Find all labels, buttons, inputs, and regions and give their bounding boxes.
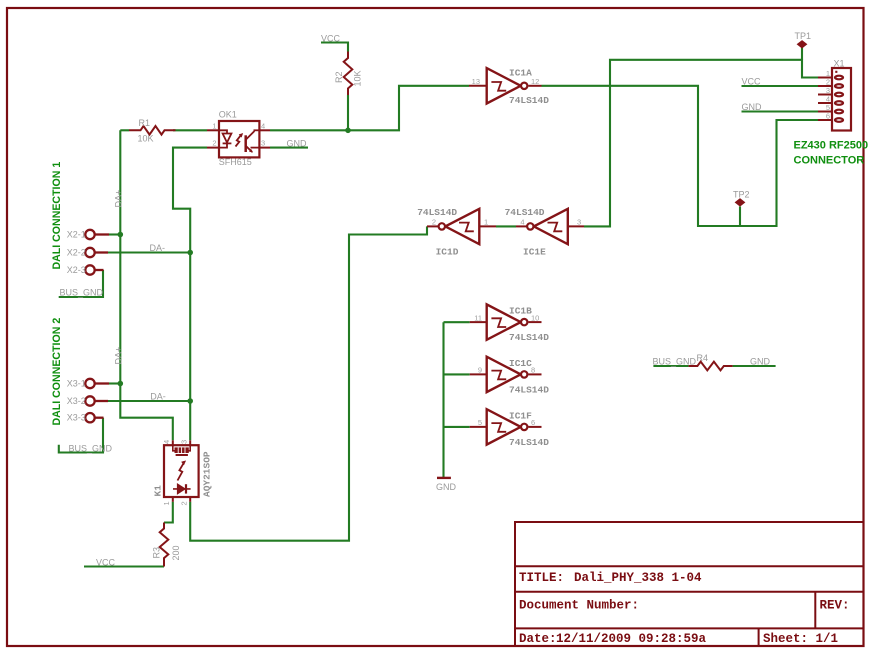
- svg-text:R2: R2: [334, 71, 344, 83]
- svg-text:BUS_GND: BUS_GND: [653, 356, 697, 366]
- wire IC1E output to X1 pin1: [584, 60, 818, 227]
- svg-text:EZ430 RF2500: EZ430 RF2500: [794, 140, 869, 152]
- test point TP2: [735, 199, 744, 206]
- svg-text:DA+: DA+: [114, 347, 124, 365]
- svg-text:8: 8: [531, 366, 535, 375]
- svg-text:X3-1: X3-1: [67, 378, 86, 388]
- svg-text:AQY21SOP: AQY21SOP: [202, 451, 213, 497]
- svg-text:2: 2: [212, 139, 216, 148]
- inverter IC1E 74LS14D (left-pointing): [516, 209, 584, 244]
- connector pin X2-2: [85, 248, 108, 257]
- wire DA+ vertical X2-1 to K1 pin4: [120, 130, 173, 440]
- wire IC1B input: [444, 321, 470, 323]
- connector X1 EZ430: [818, 68, 851, 131]
- wire R2 bottom to node: [347, 95, 349, 130]
- svg-text:4: 4: [162, 440, 171, 444]
- svg-text:3: 3: [577, 218, 581, 227]
- svg-text:74LS14D: 74LS14D: [509, 437, 549, 448]
- wire VCC to X1 pin2: [742, 85, 819, 87]
- svg-text:VCC: VCC: [96, 557, 116, 567]
- svg-text:VCC: VCC: [321, 34, 341, 44]
- wire X2-1 to DA+: [109, 233, 120, 235]
- wire R4 left BUS_GND: [653, 365, 688, 367]
- junction node X3-2 DA-: [187, 398, 193, 404]
- svg-text:10: 10: [531, 313, 539, 322]
- svg-text:74LS14D: 74LS14D: [509, 332, 549, 343]
- wire R3 bottom VCC: [84, 565, 164, 567]
- wire IC1D to IC1E: [496, 225, 516, 227]
- wire OK1 pin2 to DA- vertical: [173, 148, 207, 441]
- svg-text:13: 13: [472, 77, 480, 86]
- svg-text:REV:: REV:: [820, 599, 850, 613]
- wire R1 to OK1 pin1: [173, 129, 207, 131]
- svg-text:X2-3: X2-3: [67, 265, 86, 275]
- inverter IC1B 74LS14D: [470, 304, 542, 339]
- svg-text:74LS14D: 74LS14D: [417, 207, 457, 218]
- junction node X2-1 DA+: [118, 232, 124, 238]
- svg-text:X2-1: X2-1: [67, 229, 86, 239]
- svg-text:X3-2: X3-2: [67, 396, 86, 406]
- svg-text:GND: GND: [287, 138, 308, 148]
- svg-text:12: 12: [531, 77, 539, 86]
- svg-text:74LS14D: 74LS14D: [505, 207, 545, 218]
- wire X2-2 DA-: [108, 251, 190, 253]
- svg-text:10K: 10K: [353, 70, 363, 86]
- wire R1 left corner from DA+: [120, 129, 129, 131]
- wire IC1C input: [444, 373, 470, 375]
- svg-text:11: 11: [474, 313, 482, 322]
- optocoupler OK1 SFH615: [207, 121, 270, 157]
- svg-text:6: 6: [531, 418, 535, 427]
- svg-text:3: 3: [261, 139, 265, 148]
- wire K1 pin2 to IC1D input: [190, 226, 427, 540]
- junction node X2-2 DA-: [187, 250, 193, 256]
- test point TP1: [797, 41, 806, 48]
- svg-text:Dali_PHY_338 1-04: Dali_PHY_338 1-04: [574, 571, 702, 585]
- svg-text:12/11/2009 09:28:59a: 12/11/2009 09:28:59a: [556, 632, 707, 646]
- svg-text:2: 2: [179, 501, 188, 505]
- svg-text:IC1A: IC1A: [509, 68, 532, 79]
- svg-text:9: 9: [478, 366, 482, 375]
- svg-text:200: 200: [171, 545, 181, 560]
- inverter IC1D 74LS14D (left-pointing): [427, 209, 496, 244]
- svg-text:DALI CONNECTION 2: DALI CONNECTION 2: [51, 318, 63, 426]
- connector pin X2-1: [85, 230, 109, 239]
- svg-text:X3-3: X3-3: [67, 413, 86, 423]
- resistor R1: [129, 126, 176, 135]
- svg-text:TITLE:: TITLE:: [519, 571, 564, 585]
- svg-text:Document Number:: Document Number:: [519, 599, 639, 613]
- svg-text:10K: 10K: [138, 134, 154, 144]
- svg-text:Date:: Date:: [519, 632, 557, 646]
- wire X3-2 DA-: [108, 400, 190, 402]
- svg-text:1: 1: [162, 501, 171, 505]
- svg-text:DA-: DA-: [150, 243, 166, 253]
- svg-text:3: 3: [179, 440, 188, 444]
- wire X3-3 to BUS_GND: [59, 418, 103, 453]
- svg-text:1: 1: [484, 218, 488, 227]
- wire VCC stub to R2 top: [321, 43, 348, 52]
- svg-text:OK1: OK1: [219, 110, 237, 120]
- svg-text:Sheet: 1/1: Sheet: 1/1: [763, 632, 838, 646]
- resistor R4: [689, 362, 733, 371]
- wire X3-1 to DA+: [109, 382, 120, 384]
- wire R4 right GND: [733, 365, 776, 367]
- svg-text:IC1F: IC1F: [509, 410, 532, 421]
- svg-text:TP2: TP2: [733, 189, 750, 199]
- connector pin X3-3: [85, 413, 103, 422]
- svg-text:IC1D: IC1D: [436, 247, 459, 258]
- svg-text:IC1C: IC1C: [509, 358, 532, 369]
- svg-text:X2-2: X2-2: [67, 247, 86, 257]
- svg-text:74LS14D: 74LS14D: [509, 384, 549, 395]
- ground symbol GND: [437, 477, 451, 479]
- wire IC1B/C/F input bus to GND: [442, 322, 444, 477]
- svg-text:2: 2: [432, 218, 436, 227]
- junction node R2/OK1 pin4: [345, 128, 351, 134]
- inverter IC1C 74LS14D: [470, 357, 542, 392]
- svg-text:IC1E: IC1E: [523, 247, 546, 258]
- svg-text:DALI CONNECTION 1: DALI CONNECTION 1: [51, 162, 63, 270]
- wire K1 pin1 to R3: [164, 502, 173, 523]
- relay K1 AQY21SOP: [164, 440, 199, 502]
- svg-text:1: 1: [212, 121, 216, 130]
- connector pin X2-3: [85, 265, 103, 274]
- svg-text:SFH615: SFH615: [219, 157, 252, 167]
- svg-text:R1: R1: [139, 118, 151, 128]
- op-amp U inverter IC1A 74LS14D: [469, 68, 542, 103]
- wire GND to X1 pin5: [742, 110, 819, 112]
- svg-text:DA-: DA-: [150, 392, 166, 402]
- wire OK1 pin4 to IC1A input: [270, 86, 469, 131]
- wire IC1A output to X1 pin6 via TP2: [542, 86, 819, 226]
- svg-text:74LS14D: 74LS14D: [509, 95, 549, 106]
- junction node X3-1 DA+: [118, 381, 124, 387]
- svg-text:X1: X1: [834, 59, 845, 69]
- svg-text:GND: GND: [742, 102, 763, 112]
- svg-text:K1: K1: [153, 485, 164, 497]
- resistor R2: [344, 52, 353, 96]
- svg-text:R4: R4: [697, 353, 709, 363]
- svg-text:DA+: DA+: [114, 190, 124, 208]
- wire OK1 pin3 GND stub: [270, 147, 308, 149]
- wire IC1F input: [444, 426, 470, 428]
- svg-text:5: 5: [478, 418, 482, 427]
- svg-text:GND: GND: [436, 482, 457, 492]
- inverter IC1F 74LS14D: [470, 409, 542, 444]
- svg-text:GND: GND: [750, 356, 771, 366]
- wire TP1 stub: [801, 48, 803, 60]
- svg-text:TP1: TP1: [795, 31, 812, 41]
- svg-text:4: 4: [520, 218, 524, 227]
- svg-text:BUS_GND: BUS_GND: [60, 288, 104, 298]
- connector pin X3-1: [85, 379, 109, 388]
- connector pin X3-2: [85, 396, 108, 405]
- svg-text:VCC: VCC: [742, 77, 762, 87]
- svg-text:CONNECTOR: CONNECTOR: [794, 155, 865, 167]
- wire X2-3 to BUS_GND: [59, 270, 103, 297]
- wire TP2 stub: [739, 207, 741, 227]
- svg-text:6: 6: [826, 112, 830, 121]
- svg-text:BUS_GND: BUS_GND: [69, 443, 113, 453]
- svg-text:4: 4: [261, 121, 265, 130]
- svg-text:R3: R3: [152, 547, 162, 559]
- svg-text:IC1B: IC1B: [509, 306, 532, 317]
- resistor R3: [160, 523, 169, 567]
- title block: [515, 522, 864, 646]
